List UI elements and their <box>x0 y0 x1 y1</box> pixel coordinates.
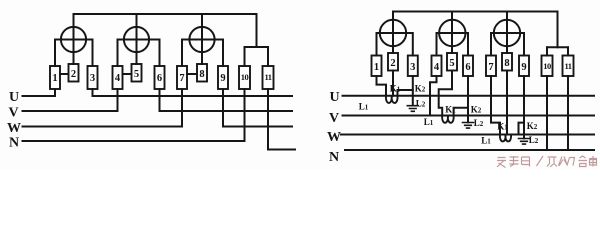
CT3 K1 feed from terminal 7 <box>491 76 500 135</box>
CT3 ground <box>519 139 530 145</box>
CT2 ground <box>463 123 474 129</box>
bus N outgoing from terminal 11 <box>268 89 295 150</box>
CT terminal labels <box>359 84 539 146</box>
svg-text:U: U <box>329 90 339 105</box>
CT3 terminal 9 wire to ground <box>523 76 525 138</box>
terminal 3 <box>408 56 418 77</box>
bus N incoming <box>23 89 245 141</box>
bus N <box>345 149 594 151</box>
CT1 K1 feed from terminal 1 <box>377 76 387 96</box>
svg-text:U: U <box>9 90 19 105</box>
svg-text:5: 5 <box>134 69 139 80</box>
CT2 terminal 6 wire to ground <box>467 76 469 122</box>
svg-text:5: 5 <box>449 58 454 69</box>
terminal 10 <box>542 56 553 77</box>
svg-text:L1: L1 <box>424 117 434 127</box>
terminal 1 <box>372 56 382 77</box>
bus W incoming <box>23 89 183 127</box>
svg-text:11: 11 <box>564 61 571 71</box>
bus V incoming <box>23 89 118 111</box>
top neutral wire of voltage coils <box>393 12 558 48</box>
bus W outgoing from terminal 9 <box>223 89 292 127</box>
coil circle phase C <box>494 20 520 46</box>
wire bar to terminal 11 <box>267 47 269 66</box>
svg-text:2: 2 <box>390 58 395 69</box>
svg-text:2: 2 <box>71 69 76 80</box>
terminal 2 <box>69 64 79 82</box>
svg-text:7: 7 <box>488 62 493 73</box>
bus U <box>343 95 595 97</box>
top neutral wire of voltage coils <box>74 14 257 47</box>
voltage/current coil P2 <box>124 27 149 52</box>
wire bar to terminal 10 <box>244 47 246 66</box>
svg-text:K2: K2 <box>527 121 538 131</box>
CT3 secondary coil <box>500 135 511 142</box>
svg-text:L2: L2 <box>529 135 539 145</box>
CT1 K2 link to terminal 3 <box>398 90 413 96</box>
svg-text:L2: L2 <box>474 118 484 128</box>
voltage/current coil P1 (circle with crosshair) <box>61 27 86 52</box>
terminal 7 <box>177 66 187 89</box>
svg-text:8: 8 <box>504 58 509 69</box>
svg-text:W: W <box>7 121 21 136</box>
svg-text:K1: K1 <box>445 105 456 115</box>
svg-text:W: W <box>327 130 341 145</box>
svg-text:K2: K2 <box>471 105 482 115</box>
CT2 K1 feed from terminal 5 <box>439 71 452 116</box>
svg-text:9: 9 <box>521 62 526 73</box>
terminal numbers right <box>374 58 527 73</box>
svg-text:1: 1 <box>374 62 379 73</box>
terminal 9 <box>218 66 228 89</box>
terminal 6 <box>155 66 165 89</box>
bus labels left <box>7 90 21 150</box>
svg-text:8: 8 <box>199 69 204 80</box>
CT1 secondary coil <box>386 96 398 103</box>
coil circle phase A <box>380 20 406 46</box>
node bar over terminals 10-11 <box>245 46 269 48</box>
wire to terminal 11 <box>567 47 569 55</box>
terminal numbers left <box>52 69 225 84</box>
link terminal 7-8 <box>187 73 197 75</box>
CT2 secondary coil <box>442 116 454 123</box>
terminal 6 <box>463 56 473 77</box>
svg-text:L2: L2 <box>416 99 426 109</box>
coil circle phase B <box>439 20 465 46</box>
terminal 4 <box>113 66 123 89</box>
bus V outgoing from terminal 6 <box>160 89 293 111</box>
link terminal 1-2 <box>60 73 69 75</box>
terminal 11 <box>263 66 274 89</box>
terminal 1 <box>50 66 60 89</box>
svg-text:K1: K1 <box>497 122 508 132</box>
svg-text:6: 6 <box>465 62 470 73</box>
svg-text:10: 10 <box>543 61 551 71</box>
wire terminal 8 voltage tap to W <box>506 71 508 135</box>
node bar over terminals 10-11 <box>547 46 568 48</box>
svg-text:7: 7 <box>179 73 184 84</box>
terminal 11 <box>563 56 574 77</box>
bus labels right <box>327 90 341 165</box>
bus U incoming <box>23 89 56 96</box>
terminal 2 <box>388 53 398 71</box>
terminal 5 <box>447 53 457 71</box>
bus U outgoing from terminal 3 <box>93 89 293 96</box>
voltage/current coil P3 <box>189 27 214 52</box>
svg-text:10: 10 <box>241 72 249 82</box>
terminal 3 <box>88 66 98 89</box>
terminal 7 <box>486 56 496 77</box>
terminal 8 <box>197 64 207 82</box>
wire terminal 11 to N <box>567 76 569 150</box>
CT3 K2 link to terminal 9 <box>519 123 525 135</box>
CT1 terminal 3 wire to ground <box>412 76 414 106</box>
svg-text:3: 3 <box>410 62 415 73</box>
terminal 10 <box>239 66 250 89</box>
wire to terminal 10 <box>546 47 548 55</box>
watermark (faux CJK glyph blocks) <box>497 156 597 168</box>
svg-text:11: 11 <box>264 72 271 82</box>
CT2 terminal 4 voltage tap to V <box>430 76 437 116</box>
svg-text:1: 1 <box>52 73 57 84</box>
terminal 8 <box>502 53 512 71</box>
svg-text:L1: L1 <box>359 102 369 112</box>
svg-text:4: 4 <box>115 73 121 84</box>
svg-text:K1: K1 <box>390 84 401 94</box>
CT2 K2 link to terminal 6 <box>454 108 468 116</box>
svg-text:9: 9 <box>220 73 225 84</box>
bus V <box>343 115 595 117</box>
svg-text:N: N <box>329 150 339 165</box>
svg-text:K2: K2 <box>415 84 426 94</box>
wire terminal 2 voltage tap to U <box>392 71 394 96</box>
CT1 ground <box>407 106 418 112</box>
svg-text:3: 3 <box>90 73 95 84</box>
terminal 5 <box>132 64 142 82</box>
svg-text:V: V <box>329 111 339 126</box>
svg-text:N: N <box>9 135 19 150</box>
bus W <box>341 134 594 136</box>
svg-text:L1: L1 <box>481 136 491 146</box>
svg-text:4: 4 <box>434 62 440 73</box>
wire terminal 10 to N <box>546 76 548 150</box>
terminal 4 <box>432 56 442 77</box>
link terminal 4-5 <box>123 73 132 75</box>
svg-text:6: 6 <box>157 73 162 84</box>
svg-text:V: V <box>8 106 18 121</box>
terminal 9 <box>519 56 529 77</box>
